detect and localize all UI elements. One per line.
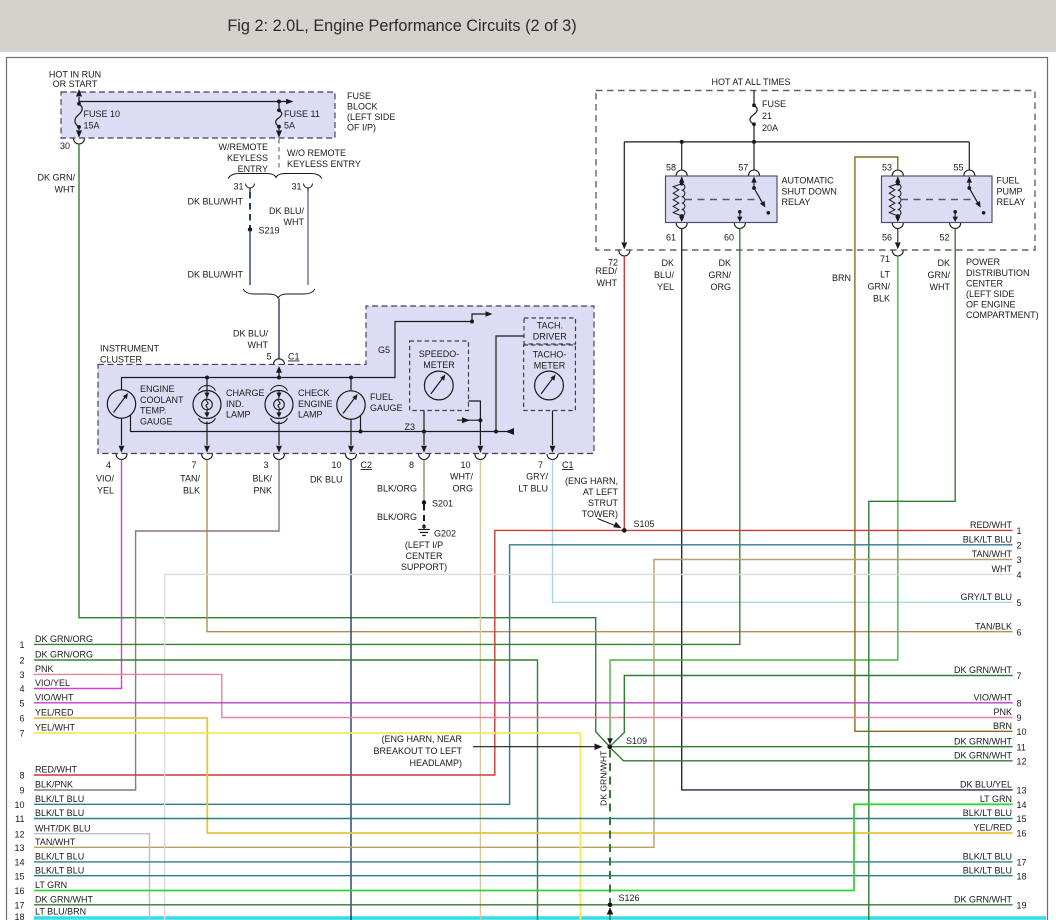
svg-text:TAN/BLK: TAN/BLK xyxy=(975,621,1012,631)
svg-text:15A: 15A xyxy=(84,121,100,131)
wire fuel gauge to pin 10 C2 xyxy=(348,419,354,453)
svg-text:S109: S109 xyxy=(626,736,647,746)
label row 9 BLK/PNK xyxy=(19,780,73,796)
svg-text:11: 11 xyxy=(1017,742,1026,752)
svg-text:DK BLU/: DK BLU/ xyxy=(233,329,269,339)
svg-text:FUEL: FUEL xyxy=(997,176,1020,186)
svg-text:7: 7 xyxy=(191,460,196,470)
label right row 6 TAN/BLK xyxy=(975,621,1021,637)
svg-text:S219: S219 xyxy=(259,226,280,236)
svg-text:DK BLU/WHT: DK BLU/WHT xyxy=(187,197,243,207)
svg-text:BLK/LT BLU: BLK/LT BLU xyxy=(35,865,84,875)
label row 14 BLK/LT BLU xyxy=(14,852,84,868)
wire check engine lamp to pin 3 xyxy=(276,422,282,453)
svg-text:PNK: PNK xyxy=(35,664,54,674)
label right row 1 RED/WHT xyxy=(970,520,1022,536)
svg-text:GRN/: GRN/ xyxy=(928,270,951,280)
svg-text:60: 60 xyxy=(724,233,734,243)
svg-text:ENGINE: ENGINE xyxy=(298,399,333,409)
svg-text:8: 8 xyxy=(409,460,414,470)
PDC pin 72 bump xyxy=(608,251,630,268)
svg-text:FUEL: FUEL xyxy=(370,392,393,402)
label right row 12 DK GRN/WHT xyxy=(954,750,1027,766)
svg-text:YEL/RED: YEL/RED xyxy=(973,823,1012,833)
svg-text:WHT: WHT xyxy=(248,340,269,350)
svg-text:HEADLAMP): HEADLAMP) xyxy=(409,758,462,768)
wire BRN pin53 to right row 10 xyxy=(832,157,1013,731)
wire DK BLU/WHT below S219 xyxy=(187,230,250,286)
ASD relay K1 box xyxy=(666,176,778,223)
wire GRY/LT BLU pin7C1 to right row 5 xyxy=(518,460,1012,603)
svg-text:HOT IN RUN: HOT IN RUN xyxy=(49,70,101,80)
cluster pin 10 C2 xyxy=(331,454,372,470)
svg-text:20A: 20A xyxy=(762,123,778,133)
wire DK GRN/WHT below S126 arrow xyxy=(607,907,614,920)
svg-text:VIO/WHT: VIO/WHT xyxy=(35,692,74,702)
svg-text:ENTRY: ENTRY xyxy=(238,164,268,174)
svg-text:DRIVER: DRIVER xyxy=(533,332,568,342)
label ENG HARN NEAR BREAKOUT pointer xyxy=(373,734,602,768)
svg-text:RELAY: RELAY xyxy=(997,197,1026,207)
svg-text:CHECK: CHECK xyxy=(298,388,330,398)
svg-text:DK GRN/: DK GRN/ xyxy=(37,173,75,183)
svg-text:FUSE: FUSE xyxy=(347,91,371,101)
wire BLK/LT BLU row 11 xyxy=(34,818,1013,820)
cluster pin 10 xyxy=(460,454,485,470)
wire BLK/LT BLU left row 10 to right row 2 xyxy=(34,545,1013,805)
svg-text:FUSE 10: FUSE 10 xyxy=(84,109,121,119)
fuel pump relay switch xyxy=(967,177,986,215)
dashed separator below fuse 11 xyxy=(278,139,280,170)
svg-text:1: 1 xyxy=(1017,526,1022,536)
svg-text:S201: S201 xyxy=(432,499,453,509)
label row 17 DK GRN/WHT xyxy=(14,894,93,910)
label HOT IN RUN OR START xyxy=(49,70,101,90)
label row 11 BLK/LT BLU xyxy=(15,808,84,824)
label row 8 RED/WHT xyxy=(19,765,77,781)
svg-text:3: 3 xyxy=(19,670,24,680)
wire LT GRN/BLK pin71 to S109 xyxy=(607,256,898,744)
svg-text:(LEFT I/P: (LEFT I/P xyxy=(405,540,443,550)
label AUTOMATIC SHUT DOWN RELAY xyxy=(782,176,837,208)
node C1 entry arrow xyxy=(276,366,282,378)
label row 3 PNK xyxy=(19,664,53,680)
svg-text:9: 9 xyxy=(19,786,24,796)
wire DK BLU stub over row 18 xyxy=(350,916,352,920)
svg-text:PUMP: PUMP xyxy=(997,187,1023,197)
label FUEL PUMP RELAY xyxy=(997,176,1026,208)
wire BLK/LT BLU row 14 xyxy=(34,861,1013,863)
svg-text:FUSE 11: FUSE 11 xyxy=(284,109,320,119)
svg-text:16: 16 xyxy=(14,886,24,896)
svg-text:SPEEDO-: SPEEDO- xyxy=(419,349,460,359)
wire WHT row 4 xyxy=(165,574,1013,920)
splice S126 xyxy=(608,893,640,907)
label right row 2 BLK/LT BLU xyxy=(963,534,1022,550)
ASD relay switch xyxy=(751,177,770,215)
label row 13 TAN/WHT xyxy=(14,837,75,853)
svg-text:OR START: OR START xyxy=(53,79,98,89)
pin 52 bump xyxy=(939,223,960,243)
label right row 10 BRN xyxy=(993,721,1027,737)
svg-text:TACHO-: TACHO- xyxy=(533,350,567,360)
svg-text:8: 8 xyxy=(19,771,24,781)
svg-text:GRN/: GRN/ xyxy=(709,270,732,280)
svg-text:DK GRN/WHT: DK GRN/WHT xyxy=(599,750,609,806)
svg-text:PNK: PNK xyxy=(993,707,1012,717)
svg-text:W/O REMOTE: W/O REMOTE xyxy=(287,148,346,158)
label right row 16 YEL/RED xyxy=(973,823,1026,839)
wire bus to pin 72 arrow xyxy=(621,142,627,250)
label row 16 LT GRN xyxy=(14,880,67,896)
svg-text:CHARGE: CHARGE xyxy=(226,388,265,398)
svg-text:OF I/P): OF I/P) xyxy=(347,123,376,133)
svg-text:S105: S105 xyxy=(634,519,655,529)
svg-text:(ENG HARN,: (ENG HARN, xyxy=(565,476,618,486)
svg-text:31: 31 xyxy=(233,182,243,192)
wire BLK/ORG pin8 to S201 xyxy=(377,460,424,501)
label row 18 LT BLU/BRN xyxy=(14,907,86,920)
svg-text:C2: C2 xyxy=(361,460,373,470)
svg-text:BLK/LT BLU: BLK/LT BLU xyxy=(35,808,84,818)
svg-text:WHT: WHT xyxy=(597,278,618,288)
wire PNK left row 3 to right row 9 xyxy=(34,674,1013,717)
wire tach driver to Z3 xyxy=(494,336,524,434)
svg-text:STRUT: STRUT xyxy=(588,498,618,508)
label right row 19 DK GRN/WHT xyxy=(954,894,1027,910)
svg-text:S126: S126 xyxy=(619,893,640,903)
svg-text:71: 71 xyxy=(880,254,890,264)
svg-text:55: 55 xyxy=(953,163,963,173)
label right row 8 VIO/WHT xyxy=(974,692,1022,708)
wire DK BLU/YEL pin61 to right row 13 xyxy=(654,229,1013,790)
svg-text:VIO/WHT: VIO/WHT xyxy=(974,692,1013,702)
svg-text:31: 31 xyxy=(291,182,301,192)
fuel pump switch output to pin 52 xyxy=(953,210,958,222)
engine coolant temp gauge M1 xyxy=(107,384,184,427)
svg-text:TAN/: TAN/ xyxy=(180,474,200,484)
svg-text:BLK/PNK: BLK/PNK xyxy=(35,780,73,790)
svg-text:21: 21 xyxy=(762,111,772,121)
pin 57 bump xyxy=(738,163,759,176)
svg-text:CENTER: CENTER xyxy=(405,551,443,561)
label right row 15 BLK/LT BLU xyxy=(963,808,1027,824)
wire YEL/WHT left row 7 xyxy=(34,733,580,920)
svg-text:DK BLU/: DK BLU/ xyxy=(269,206,305,216)
label right row 7 DK GRN/WHT xyxy=(954,665,1022,681)
label row 6 YEL/RED xyxy=(19,708,74,724)
svg-text:8: 8 xyxy=(1017,698,1022,708)
svg-text:TAN/WHT: TAN/WHT xyxy=(35,837,76,847)
alternatives brace top xyxy=(228,174,322,179)
svg-text:BLK/ORG: BLK/ORG xyxy=(377,484,417,494)
tachometer box xyxy=(524,345,576,411)
ASD relay coil xyxy=(673,177,685,222)
svg-text:DK: DK xyxy=(661,258,674,268)
svg-text:BLK/: BLK/ xyxy=(252,474,272,484)
svg-text:DK: DK xyxy=(937,258,950,268)
wire LT BLU/BRN left row 18 xyxy=(34,916,1046,919)
svg-text:WHT: WHT xyxy=(55,185,76,195)
svg-text:BRN: BRN xyxy=(832,273,851,283)
wire BLK/LT BLU row 15 xyxy=(34,875,1013,877)
svg-text:DK GRN/ORG: DK GRN/ORG xyxy=(35,650,93,660)
svg-text:W/REMOTE: W/REMOTE xyxy=(219,142,269,152)
svg-text:WHT: WHT xyxy=(930,282,951,292)
label right row 3 TAN/WHT xyxy=(972,549,1022,565)
svg-text:GAUGE: GAUGE xyxy=(370,403,403,413)
wire WHT/ORG pin10 down xyxy=(450,460,480,920)
fuel pump relay K2 box xyxy=(882,176,993,223)
splice S109 xyxy=(607,736,647,749)
wire DK BLU/WHT to cluster C1 xyxy=(233,299,279,360)
svg-text:BLK/LT BLU: BLK/LT BLU xyxy=(963,852,1012,862)
PDC pin 71 bump xyxy=(880,251,903,265)
cluster pin 7 C1 xyxy=(538,454,574,470)
label row 7 YEL/WHT xyxy=(19,723,75,739)
label right row 9 PNK xyxy=(993,707,1021,723)
svg-text:12: 12 xyxy=(1017,756,1027,766)
svg-text:6: 6 xyxy=(19,714,24,724)
svg-text:3: 3 xyxy=(263,460,268,470)
svg-text:LT: LT xyxy=(880,270,890,280)
svg-text:BLK/ORG: BLK/ORG xyxy=(377,512,417,522)
pin 55 bump xyxy=(953,163,974,176)
wire tachometer to pin 7 C1 xyxy=(550,411,556,453)
svg-text:7: 7 xyxy=(538,460,543,470)
svg-text:LAMP: LAMP xyxy=(226,410,251,420)
svg-text:14: 14 xyxy=(14,858,24,868)
tach driver box U1 xyxy=(524,318,576,344)
svg-text:CLUSTER: CLUSTER xyxy=(100,355,143,365)
svg-text:DK BLU/YEL: DK BLU/YEL xyxy=(960,780,1012,790)
svg-text:DK GRN/WHT: DK GRN/WHT xyxy=(954,750,1012,760)
svg-text:LT GRN: LT GRN xyxy=(35,880,67,890)
svg-text:BLK/LT BLU: BLK/LT BLU xyxy=(35,794,84,804)
pin 5 C1 cluster top xyxy=(266,352,299,365)
wire LT GRN left row 16 to right row 14 xyxy=(34,804,1013,890)
svg-text:METER: METER xyxy=(423,360,455,370)
svg-text:BLK/LT BLU: BLK/LT BLU xyxy=(963,534,1012,544)
svg-text:POWER: POWER xyxy=(966,257,1001,267)
label W/O REMOTE KEYLESS ENTRY xyxy=(287,148,361,169)
label FUSE BLOCK (LEFT SIDE OF I/P) xyxy=(347,91,395,133)
PDC box xyxy=(596,91,1035,251)
branch arrow node on pin10 wire xyxy=(457,417,482,423)
svg-text:57: 57 xyxy=(738,163,748,173)
svg-text:AT LEFT: AT LEFT xyxy=(583,487,619,497)
instrument cluster box xyxy=(98,306,594,454)
fuel pump relay coil xyxy=(889,177,901,222)
svg-text:TEMP.: TEMP. xyxy=(140,406,166,416)
wire hot feed arrow up xyxy=(76,89,82,104)
svg-text:BLU/: BLU/ xyxy=(654,270,675,280)
wire RED/WHT S105 to right row 1 xyxy=(624,529,1012,531)
svg-text:C1: C1 xyxy=(562,460,574,470)
cluster pin 8 xyxy=(409,454,430,470)
svg-text:TACH.: TACH. xyxy=(537,321,563,331)
svg-text:17: 17 xyxy=(1017,858,1027,868)
svg-text:10: 10 xyxy=(331,460,341,470)
wire VIO/YEL pin4 to left row 4 xyxy=(34,460,122,689)
svg-text:TOWER): TOWER) xyxy=(582,509,618,519)
svg-text:YEL/RED: YEL/RED xyxy=(35,708,74,718)
label row 12 WHT/DK BLU xyxy=(14,823,90,839)
svg-text:7: 7 xyxy=(19,729,24,739)
svg-text:5A: 5A xyxy=(284,121,295,131)
svg-text:19: 19 xyxy=(1017,900,1027,910)
svg-text:GRN/: GRN/ xyxy=(868,282,891,292)
junction dots on feed bus xyxy=(205,376,353,380)
splice S219 xyxy=(248,226,280,236)
svg-text:(LEFT SIDE: (LEFT SIDE xyxy=(966,289,1014,299)
cluster pin 4 xyxy=(106,454,127,470)
wire DK GRN/WHT dashed S109 to S126 xyxy=(599,750,611,903)
speedometer gauge xyxy=(424,371,453,400)
fuse F10 FUSE 10 15A xyxy=(75,102,120,138)
svg-text:5: 5 xyxy=(266,352,271,362)
svg-text:DK BLU/WHT: DK BLU/WHT xyxy=(187,270,243,280)
svg-text:7: 7 xyxy=(1017,671,1022,681)
svg-text:AUTOMATIC: AUTOMATIC xyxy=(782,176,835,186)
connector pin 30 bump xyxy=(60,139,85,152)
svg-text:G5: G5 xyxy=(378,345,390,355)
wire bus to pin 55 xyxy=(968,142,970,171)
svg-text:PNK: PNK xyxy=(253,486,272,496)
ASD mechanical link dashed xyxy=(685,199,757,201)
svg-text:C1: C1 xyxy=(288,352,300,362)
splice S105 xyxy=(622,519,655,533)
wire DK GRN/WHT row 17 through S126 xyxy=(34,904,1013,906)
label ENG HARN AT LEFT STRUT TOWER xyxy=(565,476,622,528)
label right row 11 DK GRN/WHT xyxy=(954,736,1026,752)
svg-text:4: 4 xyxy=(106,460,111,470)
svg-text:12: 12 xyxy=(14,829,24,839)
svg-text:14: 14 xyxy=(1017,800,1027,810)
svg-text:SHUT DOWN: SHUT DOWN xyxy=(782,187,837,197)
pin 61 bump xyxy=(666,223,687,243)
svg-text:53: 53 xyxy=(882,163,892,173)
wire WHT/DK BLU left row 12 xyxy=(34,834,150,920)
label W/REMOTE KEYLESS ENTRY xyxy=(219,142,269,174)
ground G202 xyxy=(401,524,456,572)
svg-text:11: 11 xyxy=(15,814,24,824)
svg-text:WHT: WHT xyxy=(992,564,1013,574)
svg-text:Fig 2: 2.0L, Engine Performanc: Fig 2: 2.0L, Engine Performance Circuits… xyxy=(227,17,576,35)
svg-text:OF ENGINE: OF ENGINE xyxy=(966,300,1016,310)
wire bus to pin 57 xyxy=(753,142,755,171)
svg-text:BREAKOUT TO LEFT: BREAKOUT TO LEFT xyxy=(373,746,462,756)
svg-text:RED/: RED/ xyxy=(595,266,617,276)
svg-text:ORG: ORG xyxy=(452,484,473,494)
label right row 5 GRY/LT BLU xyxy=(960,592,1021,608)
wire RED/WHT pin72 to S105 xyxy=(595,256,624,530)
svg-text:BLK: BLK xyxy=(183,486,200,496)
alternatives brace bottom xyxy=(243,289,315,298)
label row 1 DK GRN/ORG xyxy=(19,634,93,650)
svg-text:3: 3 xyxy=(1017,555,1022,565)
svg-text:10: 10 xyxy=(460,460,470,470)
wire DK GRN/WHT stub over row 18 xyxy=(868,916,870,920)
svg-text:18: 18 xyxy=(1017,871,1027,881)
wire WHT/ORG stub over row 18 xyxy=(479,916,481,920)
svg-text:61: 61 xyxy=(666,233,676,243)
wire PDC bus xyxy=(624,140,969,144)
svg-text:9: 9 xyxy=(1017,713,1022,723)
wire coolant gauge to pin 4 xyxy=(119,418,125,453)
wire YEL/RED left row 6 to right row 16 xyxy=(34,718,1013,833)
check engine lamp L2 xyxy=(265,385,333,423)
svg-text:RELAY: RELAY xyxy=(782,197,811,207)
svg-text:DK GRN/WHT: DK GRN/WHT xyxy=(35,894,93,904)
wire DK GRN/WHT from fuse 10 (left long run to S109) xyxy=(37,144,608,745)
cluster pin 3 xyxy=(263,454,284,470)
svg-text:LT GRN: LT GRN xyxy=(980,794,1012,804)
svg-text:KEYLESS: KEYLESS xyxy=(227,153,268,163)
wire BLK/ORG dashed to G202 xyxy=(377,505,424,524)
wire fuel gauge stub to Z3 xyxy=(351,378,363,434)
label POWER DISTRIBUTION CENTER xyxy=(966,257,1039,320)
svg-text:4: 4 xyxy=(1017,570,1022,580)
pin 53 bump xyxy=(882,163,903,176)
svg-text:FUSE: FUSE xyxy=(762,99,786,109)
svg-text:(ENG HARN, NEAR: (ENG HARN, NEAR xyxy=(381,734,462,744)
svg-text:GAUGE: GAUGE xyxy=(140,417,173,427)
label row 5 VIO/WHT xyxy=(19,692,74,708)
svg-text:DK GRN/WHT: DK GRN/WHT xyxy=(954,736,1012,746)
wire DK GRN/WHT right row 12 from S109 xyxy=(611,748,1013,761)
svg-text:DK: DK xyxy=(718,258,731,268)
svg-text:BLK: BLK xyxy=(873,294,890,304)
svg-text:Z3: Z3 xyxy=(404,422,415,432)
svg-text:BLOCK: BLOCK xyxy=(347,102,378,112)
svg-text:KEYLESS ENTRY: KEYLESS ENTRY xyxy=(287,159,361,169)
wire Z3 bus xyxy=(131,415,515,436)
svg-text:COOLANT: COOLANT xyxy=(140,395,184,405)
svg-text:15: 15 xyxy=(14,871,24,881)
svg-text:WHT/: WHT/ xyxy=(450,472,473,482)
label row 15 BLK/LT BLU xyxy=(14,865,84,881)
svg-text:16: 16 xyxy=(1017,829,1027,839)
label right row 14 LT GRN xyxy=(980,794,1027,810)
svg-text:YEL/WHT: YEL/WHT xyxy=(35,723,76,733)
fuse F11 FUSE 11 5A xyxy=(276,100,320,138)
svg-text:G202: G202 xyxy=(434,529,456,539)
svg-text:WHT: WHT xyxy=(284,217,305,227)
speedometer box xyxy=(410,341,469,411)
svg-text:58: 58 xyxy=(666,163,676,173)
svg-text:LAMP: LAMP xyxy=(298,410,323,420)
svg-text:YEL: YEL xyxy=(657,282,674,292)
pin 31 right fork xyxy=(291,182,312,193)
svg-text:5: 5 xyxy=(1017,598,1022,608)
svg-text:VIO/: VIO/ xyxy=(96,474,115,484)
pin 31 left fork xyxy=(233,182,254,193)
svg-text:ENGINE: ENGINE xyxy=(140,384,175,394)
svg-text:HOT AT ALL TIMES: HOT AT ALL TIMES xyxy=(711,77,790,87)
cluster pin 7 xyxy=(191,454,212,470)
svg-text:10: 10 xyxy=(1017,727,1027,737)
wire VIO/WHT row 5 xyxy=(34,702,1013,704)
pin 60 bump xyxy=(724,223,745,243)
svg-text:DK GRN/WHT: DK GRN/WHT xyxy=(954,894,1012,904)
wire RED/WHT S105 branch to left row 8 xyxy=(34,530,624,775)
wire DK BLU pin10C2 down xyxy=(310,460,351,920)
svg-text:TAN/WHT: TAN/WHT xyxy=(972,549,1013,559)
label right row 18 BLK/LT BLU xyxy=(963,865,1027,881)
label row 4 VIO/YEL xyxy=(19,678,70,694)
svg-text:BRN: BRN xyxy=(993,721,1012,731)
